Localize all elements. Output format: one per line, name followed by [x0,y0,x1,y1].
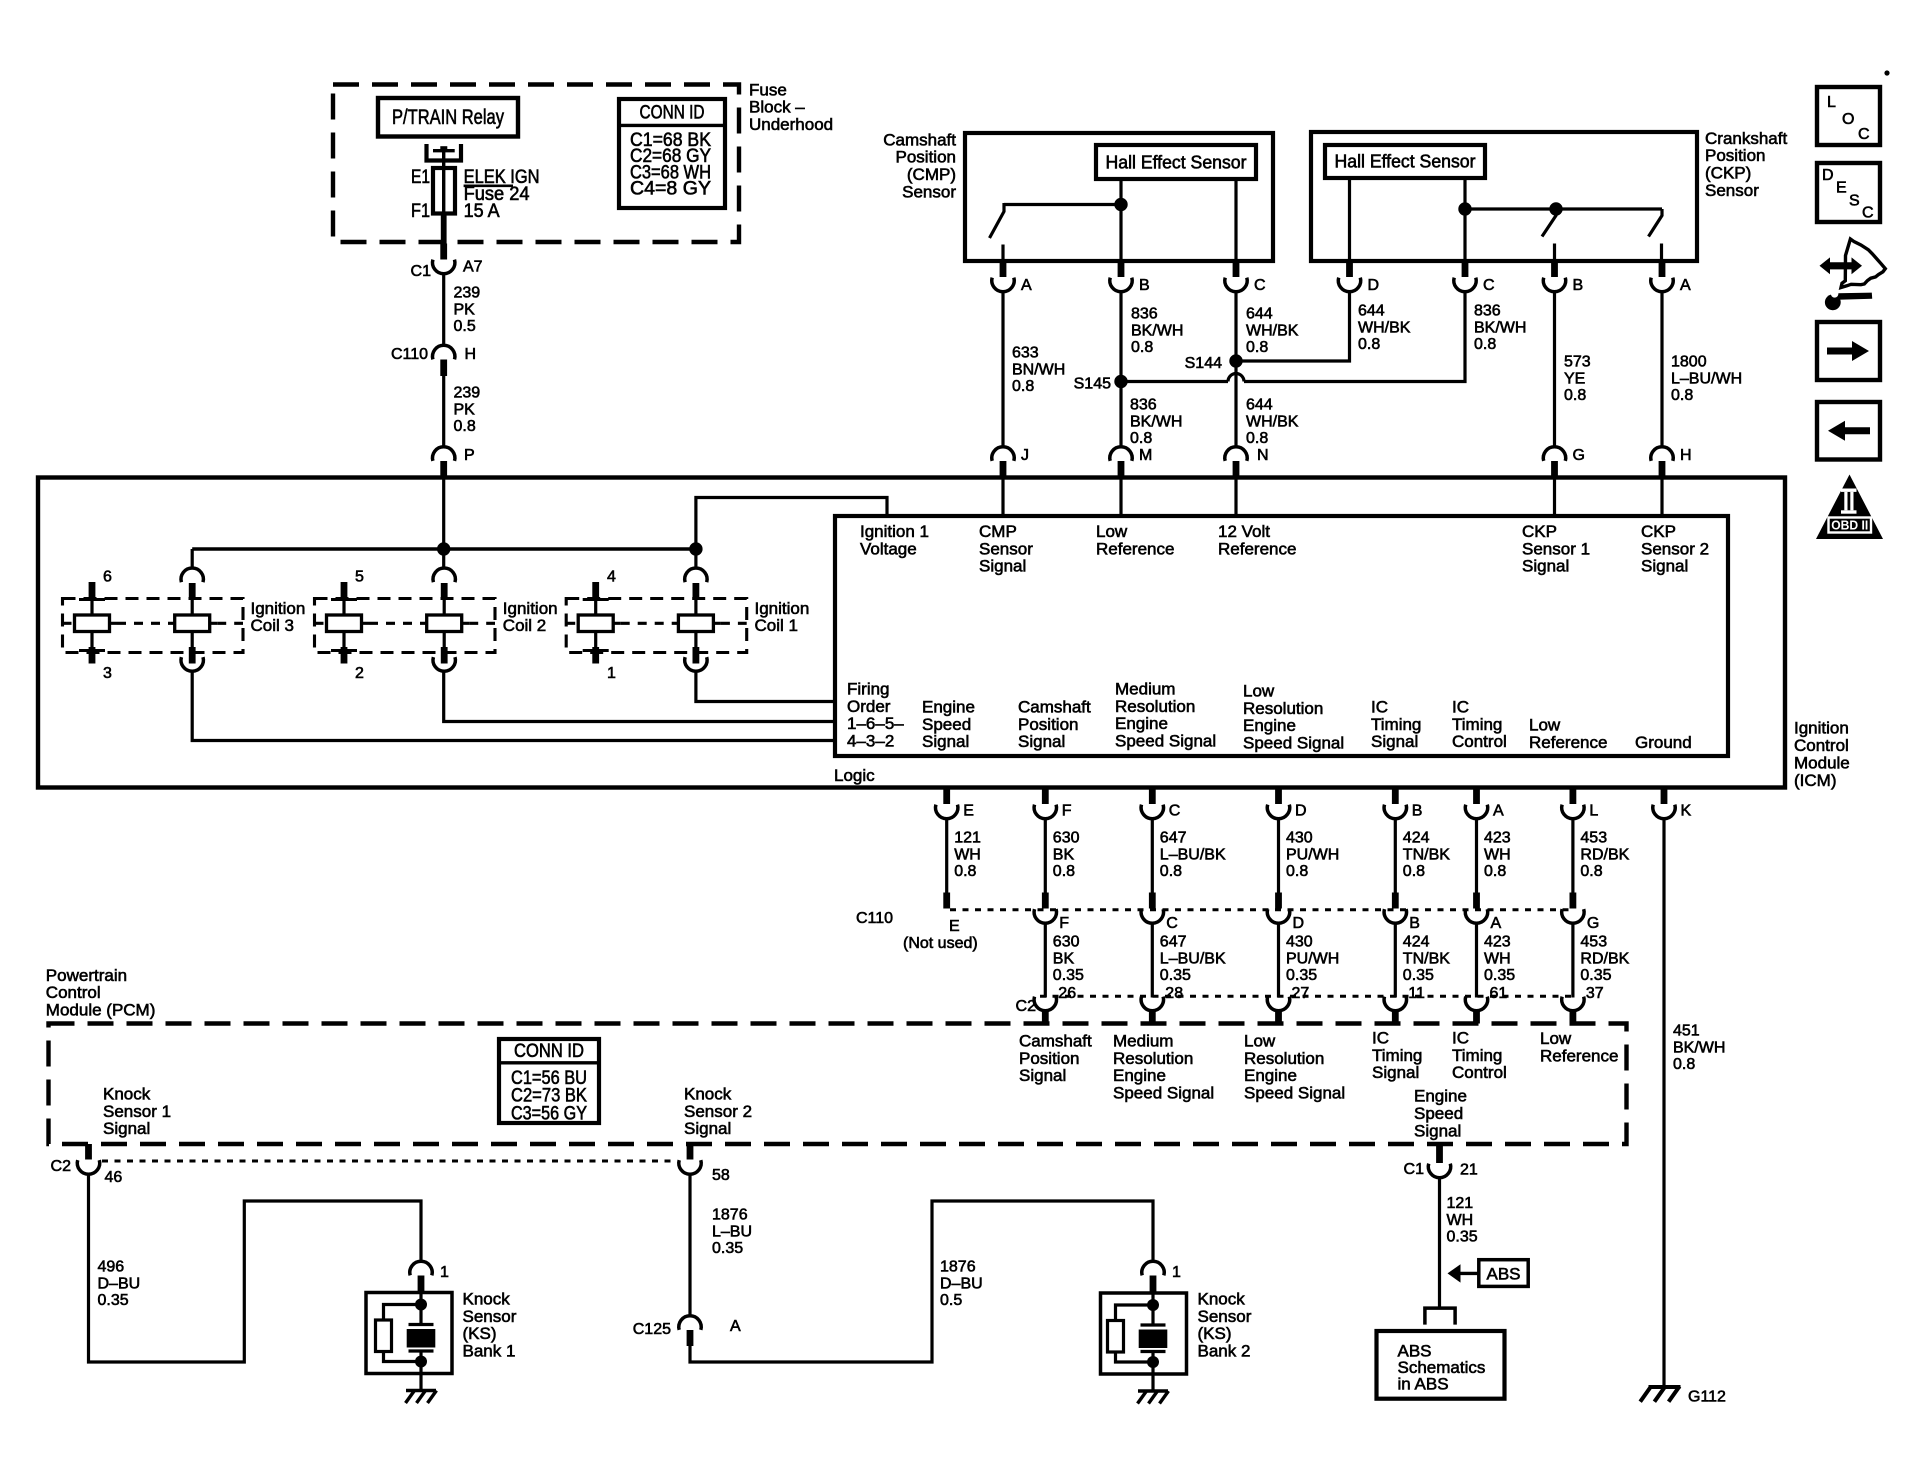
wire relay to fuse [442,151,445,168]
svg-text:Position: Position [896,148,956,167]
svg-text:C110: C110 [856,910,893,927]
wire H into logic [1660,478,1663,516]
svg-text:Knock: Knock [463,1289,511,1308]
svg-text:Resolution: Resolution [1244,1049,1324,1068]
OBD II triangle icon [1816,475,1883,540]
svg-text:836: 836 [1474,303,1501,320]
node bus at P [437,542,450,555]
svg-text:Signal: Signal [1522,557,1569,576]
svg-text:D: D [1368,277,1380,294]
svg-text:46: 46 [105,1169,123,1186]
male pin N into ICM [1233,461,1240,478]
svg-text:F: F [1059,915,1069,932]
svg-text:Underhood: Underhood [749,115,833,134]
svg-text:E1: E1 [411,167,430,188]
connector KS1 cup pin 1 [410,1261,432,1275]
svg-text:836: 836 [1130,397,1157,414]
svg-text:Knock: Knock [684,1084,732,1103]
svg-text:BK/WH: BK/WH [1130,413,1182,430]
svg-text:0.35: 0.35 [712,1240,743,1257]
connector cup pin C (CKP) [1454,278,1476,292]
svg-text:Speed: Speed [922,715,971,734]
svg-text:C: C [1169,803,1181,820]
svg-text:Firing: Firing [847,679,890,698]
svg-text:C: C [1858,126,1870,143]
svg-text:G: G [1573,447,1585,464]
svg-text:0.8: 0.8 [1671,387,1693,404]
connector ICM pin N cup [1225,447,1247,461]
connector C110 cup (D) [1267,909,1289,923]
wire C to C110 row [1151,818,1154,893]
svg-text:F: F [1062,803,1072,820]
svg-text:0.8: 0.8 [1160,863,1182,880]
svg-text:26: 26 [1058,985,1076,1002]
svg-text:0.8: 0.8 [454,418,476,435]
svg-text:0.5: 0.5 [940,1292,962,1309]
svg-text:Block –: Block – [749,98,805,117]
connector C110 cup (L) [1562,909,1584,923]
wire bus to coil1 [694,549,697,569]
svg-text:PK: PK [454,401,476,418]
svg-text:B: B [1139,277,1150,294]
wire 573 YE 0.8 (CKP B to G) [1553,291,1556,449]
switch lower stub (CMP) [1001,245,1004,262]
svg-text:633: 633 [1012,345,1039,362]
male pin 27 into PCM [1275,1010,1282,1024]
svg-text:Coil 2: Coil 2 [503,616,546,635]
wire 836 BK/WH 0.8 (B to M) [1119,291,1122,449]
svg-text:Sensor 2: Sensor 2 [1641,539,1709,558]
svg-text:A: A [730,1318,741,1335]
connector C2 cup (pin 27) [1267,997,1289,1011]
svg-text:C1: C1 [411,263,432,280]
svg-text:BK: BK [1053,846,1075,863]
male pin at C110 (B) [1392,893,1399,909]
connector C125 cup pin A [679,1316,701,1330]
connector C2 cup (pin 26) [1034,997,1056,1011]
male pin below C125 [687,1330,694,1346]
connector C2 cup pin 46 [77,1160,99,1174]
wire A to C2 row [1475,923,1478,998]
connector C2 dotted line [1040,995,1573,998]
svg-text:BK/WH: BK/WH [1673,1039,1725,1056]
conn-id table (fuse block) [619,99,725,208]
svg-text:(CMP): (CMP) [907,165,956,184]
svg-text:0.8: 0.8 [1131,339,1153,356]
male pin at C110 (C) [1149,893,1156,909]
svg-text:58: 58 [712,1167,730,1184]
svg-text:(KS): (KS) [1198,1324,1232,1343]
male pin C (CMP) [1233,261,1240,277]
svg-text:A7: A7 [463,259,483,276]
svg-text:453: 453 [1580,934,1607,951]
svg-text:PU/WH: PU/WH [1286,846,1339,863]
svg-text:1: 1 [607,665,616,682]
conn-id table (PCM) [499,1039,599,1123]
svg-text:Fuse: Fuse [749,80,787,99]
node S144 [1229,354,1242,367]
svg-text:0.8: 0.8 [1012,378,1034,395]
svg-text:Ignition: Ignition [755,599,810,618]
svg-text:F1: F1 [411,201,430,222]
svg-text:Resolution: Resolution [1115,697,1195,716]
svg-text:L: L [1827,94,1836,111]
svg-text:Position: Position [1019,1049,1079,1068]
wire M into logic [1119,478,1122,516]
svg-text:0.35: 0.35 [1484,967,1515,984]
internal bus (CKP) [1465,207,1662,210]
svg-text:IC: IC [1452,697,1469,716]
hall effect sensor box (CKP) [1325,145,1485,178]
svg-text:Reference: Reference [1218,539,1296,558]
svg-text:1876: 1876 [712,1207,748,1224]
node bus at coil1 [689,542,702,555]
svg-text:644: 644 [1358,303,1385,320]
connector cup pin D (CKP) [1338,278,1360,292]
svg-text:Control: Control [1452,732,1507,751]
svg-text:27: 27 [1292,985,1310,1002]
male pin C below ICM [1149,788,1156,805]
ignition control module (ICM) box [38,478,1785,788]
ABS schematics box [1377,1331,1505,1399]
svg-text:L–BU: L–BU [712,1223,752,1240]
male pin at C110 (A) [1473,893,1480,909]
svg-text:0.35: 0.35 [1053,967,1084,984]
connector C1 pin A7 cup [432,260,454,274]
wire coil3 to firing-order stub3 [192,671,835,741]
knock sensor KS1 (piezo + resistor) [366,1293,452,1374]
male pin B below ICM [1392,788,1399,805]
wire L to C110 row [1571,818,1574,893]
service icon (double arrow + outline + wrench) [1841,239,1885,288]
connector cup ICM pin B [1384,805,1406,819]
svg-text:61: 61 [1490,985,1508,1002]
svg-text:Timing: Timing [1452,715,1502,734]
svg-text:5: 5 [355,569,364,586]
male pin P into ICM [440,461,447,478]
wire A to C110 row [1475,818,1478,893]
male pin D below ICM [1275,788,1282,805]
wire hop to CKP C wire [1244,291,1465,382]
svg-text:Low: Low [1096,522,1128,541]
svg-text:0.8: 0.8 [1564,387,1586,404]
svg-text:Speed Signal: Speed Signal [1244,1084,1345,1103]
wire junction to switch [1004,203,1121,206]
switch blade (CMP) [990,203,1005,238]
male pin G into ICM [1551,461,1558,478]
svg-text:Knock: Knock [103,1084,151,1103]
svg-text:Medium: Medium [1113,1031,1173,1050]
svg-text:453: 453 [1580,830,1607,847]
svg-text:Camshaft: Camshaft [1018,697,1091,716]
connector C2 cup pin 58 [679,1160,701,1174]
svg-text:Signal: Signal [103,1119,150,1138]
svg-text:0.35: 0.35 [1580,967,1611,984]
svg-text:647: 647 [1160,830,1187,847]
svg-text:WH: WH [1484,950,1511,967]
svg-text:Low: Low [1244,1031,1276,1050]
wire fuse to C1 stub [441,214,447,245]
wire G to C2 row [1571,923,1574,998]
male pin A below ICM [1473,788,1480,805]
svg-text:L–BU/BK: L–BU/BK [1160,846,1226,863]
svg-text:C: C [1483,277,1495,294]
svg-text:E: E [963,803,974,820]
svg-text:0.8: 0.8 [1246,339,1268,356]
svg-text:(KS): (KS) [463,1324,497,1343]
svg-text:Control: Control [46,983,101,1002]
svg-text:Module (PCM): Module (PCM) [46,1001,156,1020]
svg-text:D: D [1822,167,1834,184]
connector ICM pin J cup [992,447,1014,461]
male pin A (CKP) [1659,261,1666,277]
ignition coil 3 [63,599,244,653]
ABS tag arrow [1448,1264,1461,1282]
svg-text:IC: IC [1371,697,1388,716]
svg-text:BN/WH: BN/WH [1012,361,1065,378]
svg-text:Resolution: Resolution [1113,1049,1193,1068]
connector cup ICM pin L [1562,805,1584,819]
svg-text:Signal: Signal [1019,1066,1066,1085]
svg-text:0.8: 0.8 [1484,863,1506,880]
svg-text:0.8: 0.8 [1673,1056,1695,1073]
svg-text:424: 424 [1403,934,1430,951]
svg-text:B: B [1573,277,1584,294]
svg-text:121: 121 [954,830,981,847]
male pin E below ICM [943,788,950,805]
svg-text:CKP: CKP [1522,522,1557,541]
svg-text:21: 21 [1460,1162,1478,1179]
fuse F24 (ELEK IGN Fuse 24 15 A) body [433,168,455,214]
connector cup pin B (CKP) [1543,278,1565,292]
svg-text:0.8: 0.8 [1053,863,1075,880]
svg-text:11: 11 [1408,985,1425,1002]
svg-text:K: K [1681,803,1692,820]
wire N into logic [1234,478,1237,516]
svg-text:H: H [1680,447,1692,464]
svg-text:S145: S145 [1074,376,1111,393]
wire E to C110 row [945,818,948,893]
off-page bracket to ABS [1425,1308,1455,1325]
svg-text:TN/BK: TN/BK [1403,950,1450,967]
wire B to C110 row [1394,818,1397,893]
svg-text:BK: BK [1053,950,1075,967]
wire J into logic [1001,478,1004,516]
svg-text:C: C [1862,205,1874,222]
svg-text:430: 430 [1286,934,1313,951]
svg-text:D: D [1295,803,1307,820]
male pin B (CMP) [1118,261,1125,277]
svg-text:Speed Signal: Speed Signal [1113,1084,1214,1103]
svg-text:Signal: Signal [684,1119,731,1138]
connector C110 cup (A) [1465,909,1487,923]
male pin C (CKP) [1462,261,1469,277]
svg-text:644: 644 [1246,397,1273,414]
svg-text:WH: WH [1484,846,1511,863]
svg-text:CMP: CMP [979,522,1017,541]
male pin 21 below PCM [1436,1144,1443,1163]
svg-text:J: J [1021,447,1029,464]
svg-text:P/TRAIN Relay: P/TRAIN Relay [392,106,504,129]
relay K (P/TRAIN Relay) box [378,98,518,137]
svg-text:Sensor: Sensor [902,182,956,201]
svg-text:RD/BK: RD/BK [1580,846,1629,863]
wire coil2 to firing-order stub2 [444,671,835,722]
node S145 [1114,375,1127,388]
svg-text:0.35: 0.35 [1160,967,1191,984]
svg-text:WH: WH [954,846,981,863]
svg-text:Hall Effect Sensor: Hall Effect Sensor [1335,152,1476,172]
tiny dot (top right) [1884,70,1889,75]
svg-text:Signal: Signal [1414,1122,1461,1141]
svg-text:Engine: Engine [1243,716,1296,735]
wire bus to coil3 [191,549,194,569]
svg-text:0.35: 0.35 [1403,967,1434,984]
svg-text:C110: C110 [391,346,428,363]
wire 121 WH 0.35 (pin 21 down) [1438,1177,1441,1308]
svg-text:Camshaft: Camshaft [883,130,956,149]
svg-text:3: 3 [103,665,112,682]
svg-text:4: 4 [607,569,616,586]
svg-text:L–BU/BK: L–BU/BK [1160,950,1226,967]
male pin 61 into PCM [1473,1010,1480,1024]
svg-text:A: A [1021,277,1032,294]
fuse internal wire [442,168,445,214]
svg-text:423: 423 [1484,934,1511,951]
svg-text:Timing: Timing [1372,1046,1422,1065]
male pin J into ICM [1000,461,1007,478]
connector cup pin C (CMP) [1225,278,1247,292]
connector C110 pin H cup [432,345,454,359]
wire 1876 D-BU 0.5 (C125 to KS2) [690,1201,1153,1362]
svg-text:Module: Module [1794,753,1850,772]
connector C110 cup (B) [1384,909,1406,923]
svg-text:C: C [1166,915,1178,932]
connector C110 cup (C) [1141,909,1163,923]
svg-text:A: A [1493,803,1504,820]
connector C2 dotted line (PCM bottom) [102,1160,676,1163]
svg-text:Position: Position [1705,146,1765,165]
svg-text:Hall Effect Sensor: Hall Effect Sensor [1106,153,1247,173]
svg-text:C1: C1 [1404,1161,1425,1178]
connector cup pin A (CKP) [1651,278,1673,292]
svg-text:423: 423 [1484,830,1511,847]
svg-text:Voltage: Voltage [860,539,917,558]
switch blade B (CKP) [1542,209,1556,237]
svg-text:0.8: 0.8 [1403,863,1425,880]
back arrow icon box [1817,402,1880,460]
connector ICM pin G cup [1543,447,1565,461]
male pin H into ICM [1659,461,1666,478]
svg-text:Timing: Timing [1371,715,1421,734]
knock sensor KS2 (piezo + resistor) [1101,1293,1187,1374]
male pin into C1 [440,244,447,260]
node junction on C wire (CKP) [1458,202,1471,215]
LOC icon box [1817,87,1880,145]
svg-text:Signal: Signal [1371,732,1418,751]
connector C2 cup (pin 61) [1465,997,1487,1011]
svg-text:Speed Signal: Speed Signal [1115,732,1216,751]
svg-text:C4=8 GY: C4=8 GY [630,178,711,199]
male pin 1 into KS1 [418,1276,425,1294]
svg-text:Ignition: Ignition [503,599,558,618]
svg-text:28: 28 [1165,985,1183,1002]
svg-text:37: 37 [1586,985,1604,1002]
svg-text:Reference: Reference [1096,539,1174,558]
svg-text:Medium: Medium [1115,679,1175,698]
svg-text:1800: 1800 [1671,354,1707,371]
svg-text:(CKP): (CKP) [1705,164,1751,183]
wire hop over N wire [1228,374,1244,382]
relay male terminal T [433,149,455,152]
wire D to C110 row [1277,818,1280,893]
svg-text:0.35: 0.35 [1447,1228,1478,1245]
logic box [835,516,1728,756]
svg-text:15 A: 15 A [464,201,500,222]
svg-text:PK: PK [454,301,476,318]
svg-text:Signal: Signal [1641,557,1688,576]
svg-text:1–6–5–: 1–6–5– [847,714,904,733]
male pin at C110 (L) [1570,893,1577,909]
wire S145 to hop [1121,380,1228,383]
wire 239 PK 0.5 [442,274,445,346]
svg-text:Signal: Signal [1372,1063,1419,1082]
svg-text:C125: C125 [633,1321,671,1338]
svg-text:RD/BK: RD/BK [1580,950,1629,967]
svg-text:644: 644 [1246,306,1273,323]
svg-text:451: 451 [1673,1023,1700,1040]
wire F to C2 row [1044,923,1047,998]
male pin below C110 [440,360,447,377]
svg-text:Low: Low [1529,715,1561,734]
wire G into logic [1553,478,1556,516]
svg-text:0.8: 0.8 [1474,336,1496,353]
svg-text:ABS: ABS [1486,1265,1520,1284]
svg-text:O: O [1842,111,1854,128]
connector ICM pin H cup [1651,447,1673,461]
connector cup ICM pin D [1267,805,1289,819]
svg-text:D–BU: D–BU [940,1275,983,1292]
node junction switch B (CKP) [1549,202,1562,215]
svg-text:C2: C2 [1016,998,1037,1015]
svg-text:Signal: Signal [979,557,1026,576]
camshaft position (CMP) sensor box [965,133,1273,261]
wire hall-C down to pin C (CKP) [1463,209,1466,261]
wire 633 BN/WH 0.8 (A to J) [1001,291,1004,449]
male pin 37 into PCM [1570,1010,1577,1024]
wire coil1 to firing-order stub1 [696,671,835,702]
connector cup pin B (CMP) [1110,278,1132,292]
svg-text:Engine: Engine [1414,1086,1467,1105]
connector cup ICM pin C [1141,805,1163,819]
wire 644 WH/BK 0.8 (C to N) [1234,291,1237,449]
wire hall to node (CKP) [1463,178,1466,209]
svg-text:430: 430 [1286,830,1313,847]
wire C to C2 row [1151,923,1154,998]
switch lower stub B (CKP) [1553,244,1556,262]
male pin at C110 (E) [943,893,950,909]
connector cup ICM pin K [1653,805,1675,819]
wire 1800 L-BU/WH 0.8 (CKP A to H) [1660,291,1663,449]
svg-text:573: 573 [1564,354,1591,371]
wire hall to pin D [1348,178,1351,261]
connector C110 cup (F) [1034,909,1056,923]
svg-text:630: 630 [1053,830,1080,847]
svg-text:N: N [1257,447,1269,464]
svg-text:A: A [1491,915,1502,932]
connector ICM pin M cup [1110,447,1132,461]
powertrain control module (PCM) dashed box [49,1024,1627,1145]
